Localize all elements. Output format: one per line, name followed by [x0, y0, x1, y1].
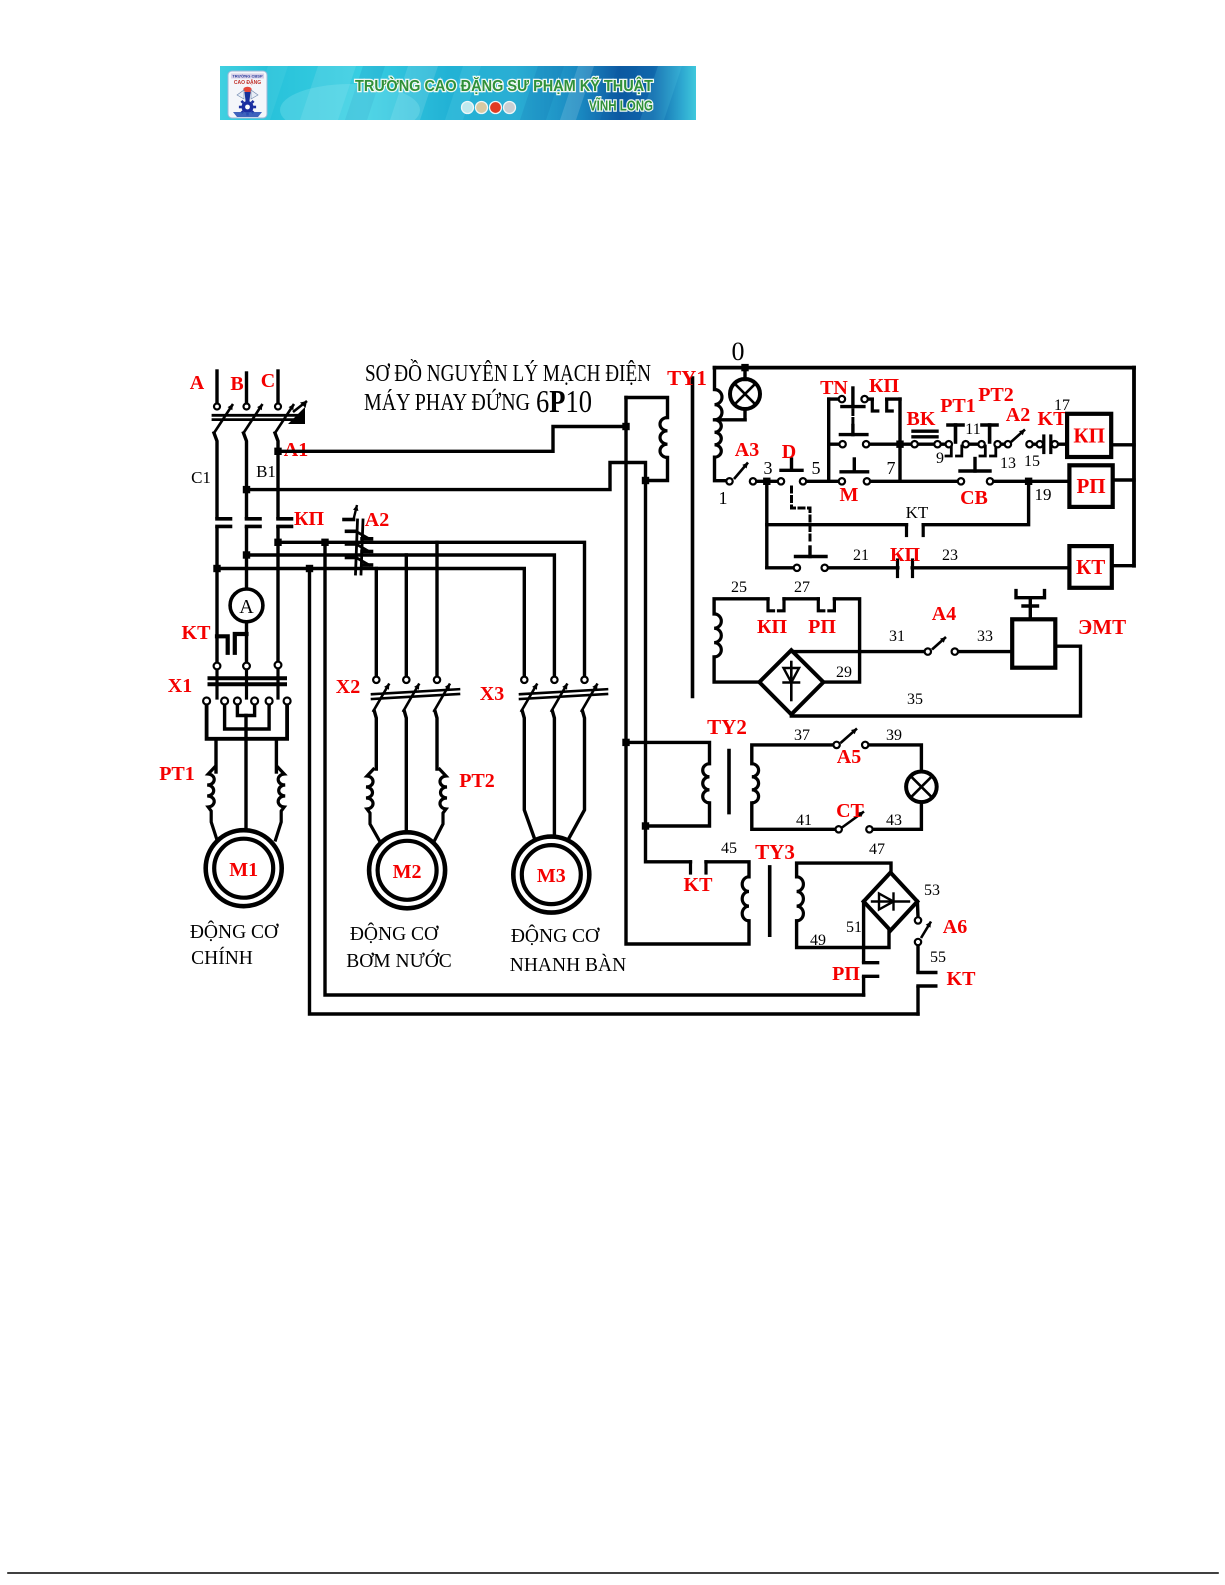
electromagnet EMT box	[1012, 619, 1055, 667]
TY2 secondary top lead	[752, 745, 837, 764]
contact KT NO on 444	[1030, 443, 1040, 446]
vertical B1 feeder	[646, 481, 691, 862]
svg-text:B1: B1	[256, 462, 276, 481]
svg-text:35: 35	[907, 691, 923, 708]
EMT armature symbol	[1016, 591, 1045, 598]
contact KT 55	[916, 942, 919, 971]
svg-text:ЭМТ: ЭМТ	[1078, 615, 1126, 639]
svg-text:РП: РП	[832, 963, 860, 985]
transformer TY3 core	[768, 867, 772, 935]
switch X2 riser right	[435, 542, 438, 676]
svg-text:A6: A6	[943, 916, 967, 938]
thermal relay PT2 heater outline	[366, 768, 381, 844]
switch A5	[841, 729, 858, 744]
svg-text:TY1: TY1	[667, 366, 707, 390]
svg-text:A: A	[190, 372, 205, 394]
svg-text:B: B	[230, 373, 243, 395]
thermal contact PT2	[966, 443, 982, 446]
svg-text:27: 27	[794, 579, 810, 596]
TY1 primary bottom lead	[646, 458, 668, 481]
motor M1 lead centre	[244, 716, 247, 832]
phase B line ammeter to X1	[245, 622, 248, 663]
CT return to TY2	[752, 803, 839, 829]
TY1 third winding bottom lead	[714, 657, 759, 682]
switch X2 double bar	[372, 689, 459, 694]
wire B1 to TY1	[247, 463, 646, 490]
svg-text:C: C	[261, 370, 275, 392]
return vertical from wire3 to bottom wire2	[306, 565, 313, 572]
switch A6	[921, 922, 931, 939]
signal lamp L1	[906, 772, 937, 803]
svg-text:A5: A5	[837, 746, 861, 768]
contact KP NO 21-23	[896, 560, 899, 577]
svg-text:A4: A4	[932, 603, 956, 625]
svg-text:VĨNH LONG: VĨNH LONG	[589, 97, 653, 115]
phase B incoming line	[245, 373, 248, 403]
RP to bottom wire 1	[862, 978, 865, 995]
svg-text:D: D	[782, 441, 796, 463]
TY1 secondary lower winding	[715, 420, 722, 457]
right rail	[1132, 368, 1136, 566]
linked contact on wire 444	[851, 426, 854, 435]
switch CT	[842, 812, 864, 828]
TY3 secondary top lead 47	[797, 863, 891, 877]
mech link TN-M2contact	[851, 410, 854, 426]
TY1 secondary mid tap	[715, 418, 746, 421]
contact circles overlay	[214, 404, 220, 410]
TY2 primary bottom lead	[646, 803, 710, 826]
control supply top rail	[715, 366, 1135, 370]
svg-text:TRƯỜNG CBSP: TRƯỜNG CBSP	[232, 74, 263, 79]
control wire node 7	[867, 480, 961, 483]
svg-text:C1: C1	[191, 468, 211, 487]
switch X2 blades	[373, 684, 390, 713]
TY2 primary winding	[703, 764, 710, 803]
svg-text:KT: KT	[906, 503, 929, 522]
switch X3 blades	[521, 684, 538, 713]
motor M1	[206, 830, 282, 906]
motor M3	[513, 837, 589, 913]
svg-text:A3: A3	[735, 439, 759, 461]
phase C line below switch	[275, 433, 278, 517]
contactor KP main contact phase B	[247, 517, 261, 521]
contact KP NC 25	[768, 599, 774, 611]
riser node 7	[898, 399, 901, 481]
svg-text:49: 49	[810, 932, 826, 949]
svg-text:KT: KT	[182, 622, 212, 644]
svg-text:M1: M1	[229, 859, 258, 881]
svg-text:11: 11	[965, 421, 980, 438]
svg-text:РП: РП	[1076, 474, 1105, 498]
svg-text:A: A	[239, 596, 254, 618]
banner nav dots	[462, 102, 474, 114]
svg-text:6P10: 6P10	[536, 383, 592, 419]
svg-text:PT1: PT1	[940, 395, 976, 417]
contact RP NC 27	[818, 599, 824, 611]
svg-text:A2: A2	[365, 509, 389, 531]
branch TN-KP upper	[829, 397, 842, 400]
KT to bottom wire 2	[916, 988, 919, 1015]
TY1 secondary upper winding	[715, 390, 723, 420]
svg-text:3: 3	[764, 458, 773, 478]
wire A1 to TY1	[278, 427, 626, 452]
riser to KT branch	[765, 481, 768, 568]
svg-text:КП: КП	[294, 508, 325, 530]
control wire to RP coil	[990, 480, 1069, 483]
diagram title	[364, 360, 651, 419]
bridge V2 left output RP contact	[862, 902, 865, 962]
TY1 secondary lower lead node 1	[715, 457, 730, 481]
wire 3 phase A branch	[213, 565, 220, 572]
motor M1 lead left	[214, 739, 217, 772]
svg-text:КП: КП	[869, 375, 900, 397]
branch KP contact to KT coil	[767, 566, 797, 569]
phase A line below switch	[214, 433, 217, 517]
thermal contact PT1	[938, 443, 949, 446]
TY3 primary winding	[742, 877, 749, 921]
svg-text:KT: KT	[684, 874, 714, 896]
main switch QS double bar	[213, 414, 303, 417]
svg-text:29: 29	[836, 664, 852, 681]
svg-text:CHÍNH: CHÍNH	[191, 947, 253, 969]
switch A2 blades	[347, 529, 357, 533]
phase B line below switch	[244, 433, 247, 517]
svg-text:9: 9	[936, 450, 944, 467]
svg-text:КП: КП	[757, 616, 788, 638]
svg-text:КП: КП	[890, 544, 921, 566]
svg-text:41: 41	[796, 812, 812, 829]
svg-text:39: 39	[886, 727, 902, 744]
svg-text:BK: BK	[907, 408, 936, 430]
transformer TY2 core	[727, 751, 731, 813]
svg-text:X3: X3	[480, 683, 504, 705]
svg-text:КТ: КТ	[1076, 555, 1105, 579]
TY2 secondary winding	[752, 764, 759, 803]
signal lamp L0	[741, 364, 748, 371]
svg-text:PT2: PT2	[978, 384, 1014, 406]
switch X2 riser left	[375, 569, 378, 677]
switch A2 contact	[998, 443, 1008, 446]
svg-text:5: 5	[812, 458, 821, 478]
motor M3 leads	[522, 711, 535, 840]
vertical A1 feeder	[626, 398, 749, 945]
switch A3	[734, 463, 748, 480]
svg-text:CT: CT	[836, 800, 864, 822]
svg-text:PT1: PT1	[159, 763, 195, 785]
lamp L1 to CT	[869, 802, 921, 829]
svg-text:M3: M3	[537, 865, 566, 887]
pushbutton CB	[960, 469, 990, 472]
svg-text:1: 1	[719, 488, 728, 508]
wire 31 node	[791, 650, 928, 653]
svg-text:X1: X1	[168, 675, 192, 697]
left control riser	[827, 399, 830, 481]
svg-text:55: 55	[930, 949, 946, 966]
pushbutton D	[781, 469, 802, 472]
svg-text:SƠ ĐỒ NGUYÊN LÝ MẠCH ĐIỆN: SƠ ĐỒ NGUYÊN LÝ MẠCH ĐIỆN	[365, 360, 651, 387]
phase C incoming line	[276, 371, 279, 403]
svg-text:7: 7	[887, 458, 896, 478]
rectifier bridge V1	[759, 650, 823, 714]
wire 35 return	[791, 646, 1080, 716]
svg-text:51: 51	[846, 919, 862, 936]
svg-text:47: 47	[869, 841, 885, 858]
svg-text:A2: A2	[1006, 404, 1030, 426]
wire 1 phase C branch	[274, 539, 281, 546]
svg-text:NHANH BÀN: NHANH BÀN	[510, 954, 626, 976]
svg-text:45: 45	[721, 840, 737, 857]
motor M2	[369, 832, 445, 908]
ammeter A	[230, 589, 263, 622]
bridge V2 right output to A6	[916, 902, 920, 918]
svg-text:РП: РП	[808, 616, 836, 638]
node B1 junction	[243, 486, 250, 493]
svg-text:KT: KT	[947, 968, 977, 990]
svg-text:0: 0	[732, 337, 745, 366]
svg-text:ĐỘNG CƠ: ĐỘNG CƠ	[350, 923, 439, 945]
svg-text:13: 13	[1000, 455, 1016, 472]
svg-text:23: 23	[942, 547, 958, 564]
TY1 secondary upper lead	[713, 368, 716, 390]
svg-text:17: 17	[1054, 397, 1070, 414]
wire 444 row	[829, 443, 843, 446]
TY1 third winding	[714, 614, 721, 657]
linked contact of D	[796, 555, 827, 558]
button TN	[842, 405, 864, 408]
TY1 primary winding	[660, 418, 667, 458]
motor M1 link t2-t5	[225, 705, 270, 730]
thermal relay PT1 heater outline	[207, 766, 217, 842]
svg-text:CAO ĐẬNG: CAO ĐẬNG	[234, 79, 261, 86]
motor M2 leads	[374, 711, 376, 769]
school logo shield	[228, 71, 267, 118]
switch A4	[932, 637, 946, 650]
motor M1 link t1-t6	[207, 705, 288, 739]
limit switch BK	[913, 430, 937, 433]
svg-text:43: 43	[886, 812, 902, 829]
TY1 primary top lead	[626, 398, 668, 418]
svg-text:33: 33	[977, 628, 993, 645]
TY3 secondary bottom lead 49	[797, 921, 889, 948]
svg-text:37: 37	[794, 727, 810, 744]
contactor KP main contact phase A	[217, 517, 231, 521]
control wire node 3	[753, 480, 781, 483]
QS blade pole B	[244, 404, 263, 433]
QS blade pole C	[275, 404, 294, 433]
page footer rule	[8, 1572, 1218, 1574]
motor M1 link t3-t4	[237, 705, 254, 716]
phase C line to X1	[276, 528, 279, 662]
svg-text:PT2: PT2	[459, 770, 495, 792]
TY2 primary top lead	[626, 742, 710, 763]
svg-text:ĐỘNG CƠ: ĐỘNG CƠ	[190, 921, 279, 943]
phase A line to X1	[215, 528, 218, 663]
svg-text:M: M	[840, 484, 859, 506]
coil KT box	[1069, 546, 1111, 588]
mech link D	[792, 487, 811, 544]
svg-text:53: 53	[924, 882, 940, 899]
svg-text:ĐỘNG CƠ: ĐỘNG CƠ	[511, 925, 600, 947]
svg-text:M2: M2	[393, 861, 422, 883]
svg-text:19: 19	[1035, 485, 1052, 504]
svg-text:21: 21	[853, 547, 869, 564]
svg-text:15: 15	[1024, 453, 1040, 470]
svg-text:TRƯỜNG CAO ĐẶNG SƯ PHẠM KỸ THU: TRƯỜNG CAO ĐẶNG SƯ PHẠM KỸ THUẬT	[355, 77, 653, 95]
svg-text:MÁY PHAY ĐỨNG: MÁY PHAY ĐỨNG	[364, 389, 530, 416]
svg-text:25: 25	[731, 579, 747, 596]
svg-text:31: 31	[889, 628, 905, 645]
svg-text:КП: КП	[1073, 423, 1105, 447]
contact KT 45	[689, 862, 692, 873]
svg-text:BƠM NƯỚC: BƠM NƯỚC	[346, 950, 452, 972]
svg-text:X2: X2	[336, 676, 360, 698]
switch X3 double bar	[520, 689, 607, 694]
QS handle arrow	[288, 407, 305, 424]
TY1 third winding top lead	[714, 599, 768, 614]
diode inside V1	[790, 662, 793, 700]
switch X2 riser middle	[405, 555, 408, 677]
node A1 junction	[274, 448, 281, 455]
TY3 secondary winding	[797, 877, 804, 921]
switch A2 double bar	[356, 520, 358, 574]
thermal element KT on phase A	[217, 636, 228, 653]
QS blade pole A	[214, 404, 233, 433]
svg-text:TY3: TY3	[755, 840, 795, 864]
wire to lamp L1	[865, 745, 921, 772]
svg-text:TY2: TY2	[707, 715, 747, 739]
phase B line to ammeter	[245, 528, 248, 589]
banner title text	[355, 77, 653, 115]
contactor KP main contact phase C	[278, 517, 292, 521]
motor M1 lead right	[275, 739, 278, 772]
phase A incoming line	[215, 371, 218, 403]
diode inside V2	[872, 900, 909, 902]
terminal X1 busbar	[210, 676, 286, 680]
control wire node 5	[803, 480, 842, 483]
pushbutton M	[841, 470, 868, 473]
coil KP box	[1067, 414, 1111, 457]
svg-text:CB: CB	[960, 487, 988, 509]
wire 2 phase B branch	[243, 551, 250, 558]
return vertical from wire1 to bottom wire1	[321, 539, 328, 546]
coil RP box	[1069, 465, 1112, 507]
switch A2 arrow	[344, 518, 354, 522]
rectifier bridge V2	[864, 873, 918, 931]
contact KP NC upper	[865, 397, 873, 400]
branch KT contact wire 19	[767, 523, 907, 526]
transformer TY1 core	[691, 378, 695, 697]
